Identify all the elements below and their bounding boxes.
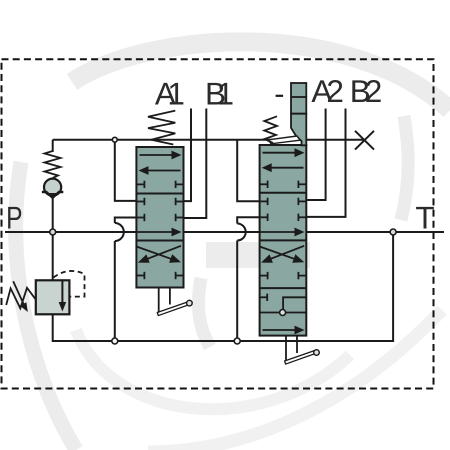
svg-text:A1: A1 [155, 75, 185, 111]
svg-text:A2: A2 [311, 73, 344, 109]
svg-text:B1: B1 [205, 75, 234, 111]
svg-text:P: P [6, 199, 22, 235]
svg-text:B2: B2 [350, 73, 383, 109]
svg-text:T: T [415, 200, 434, 236]
